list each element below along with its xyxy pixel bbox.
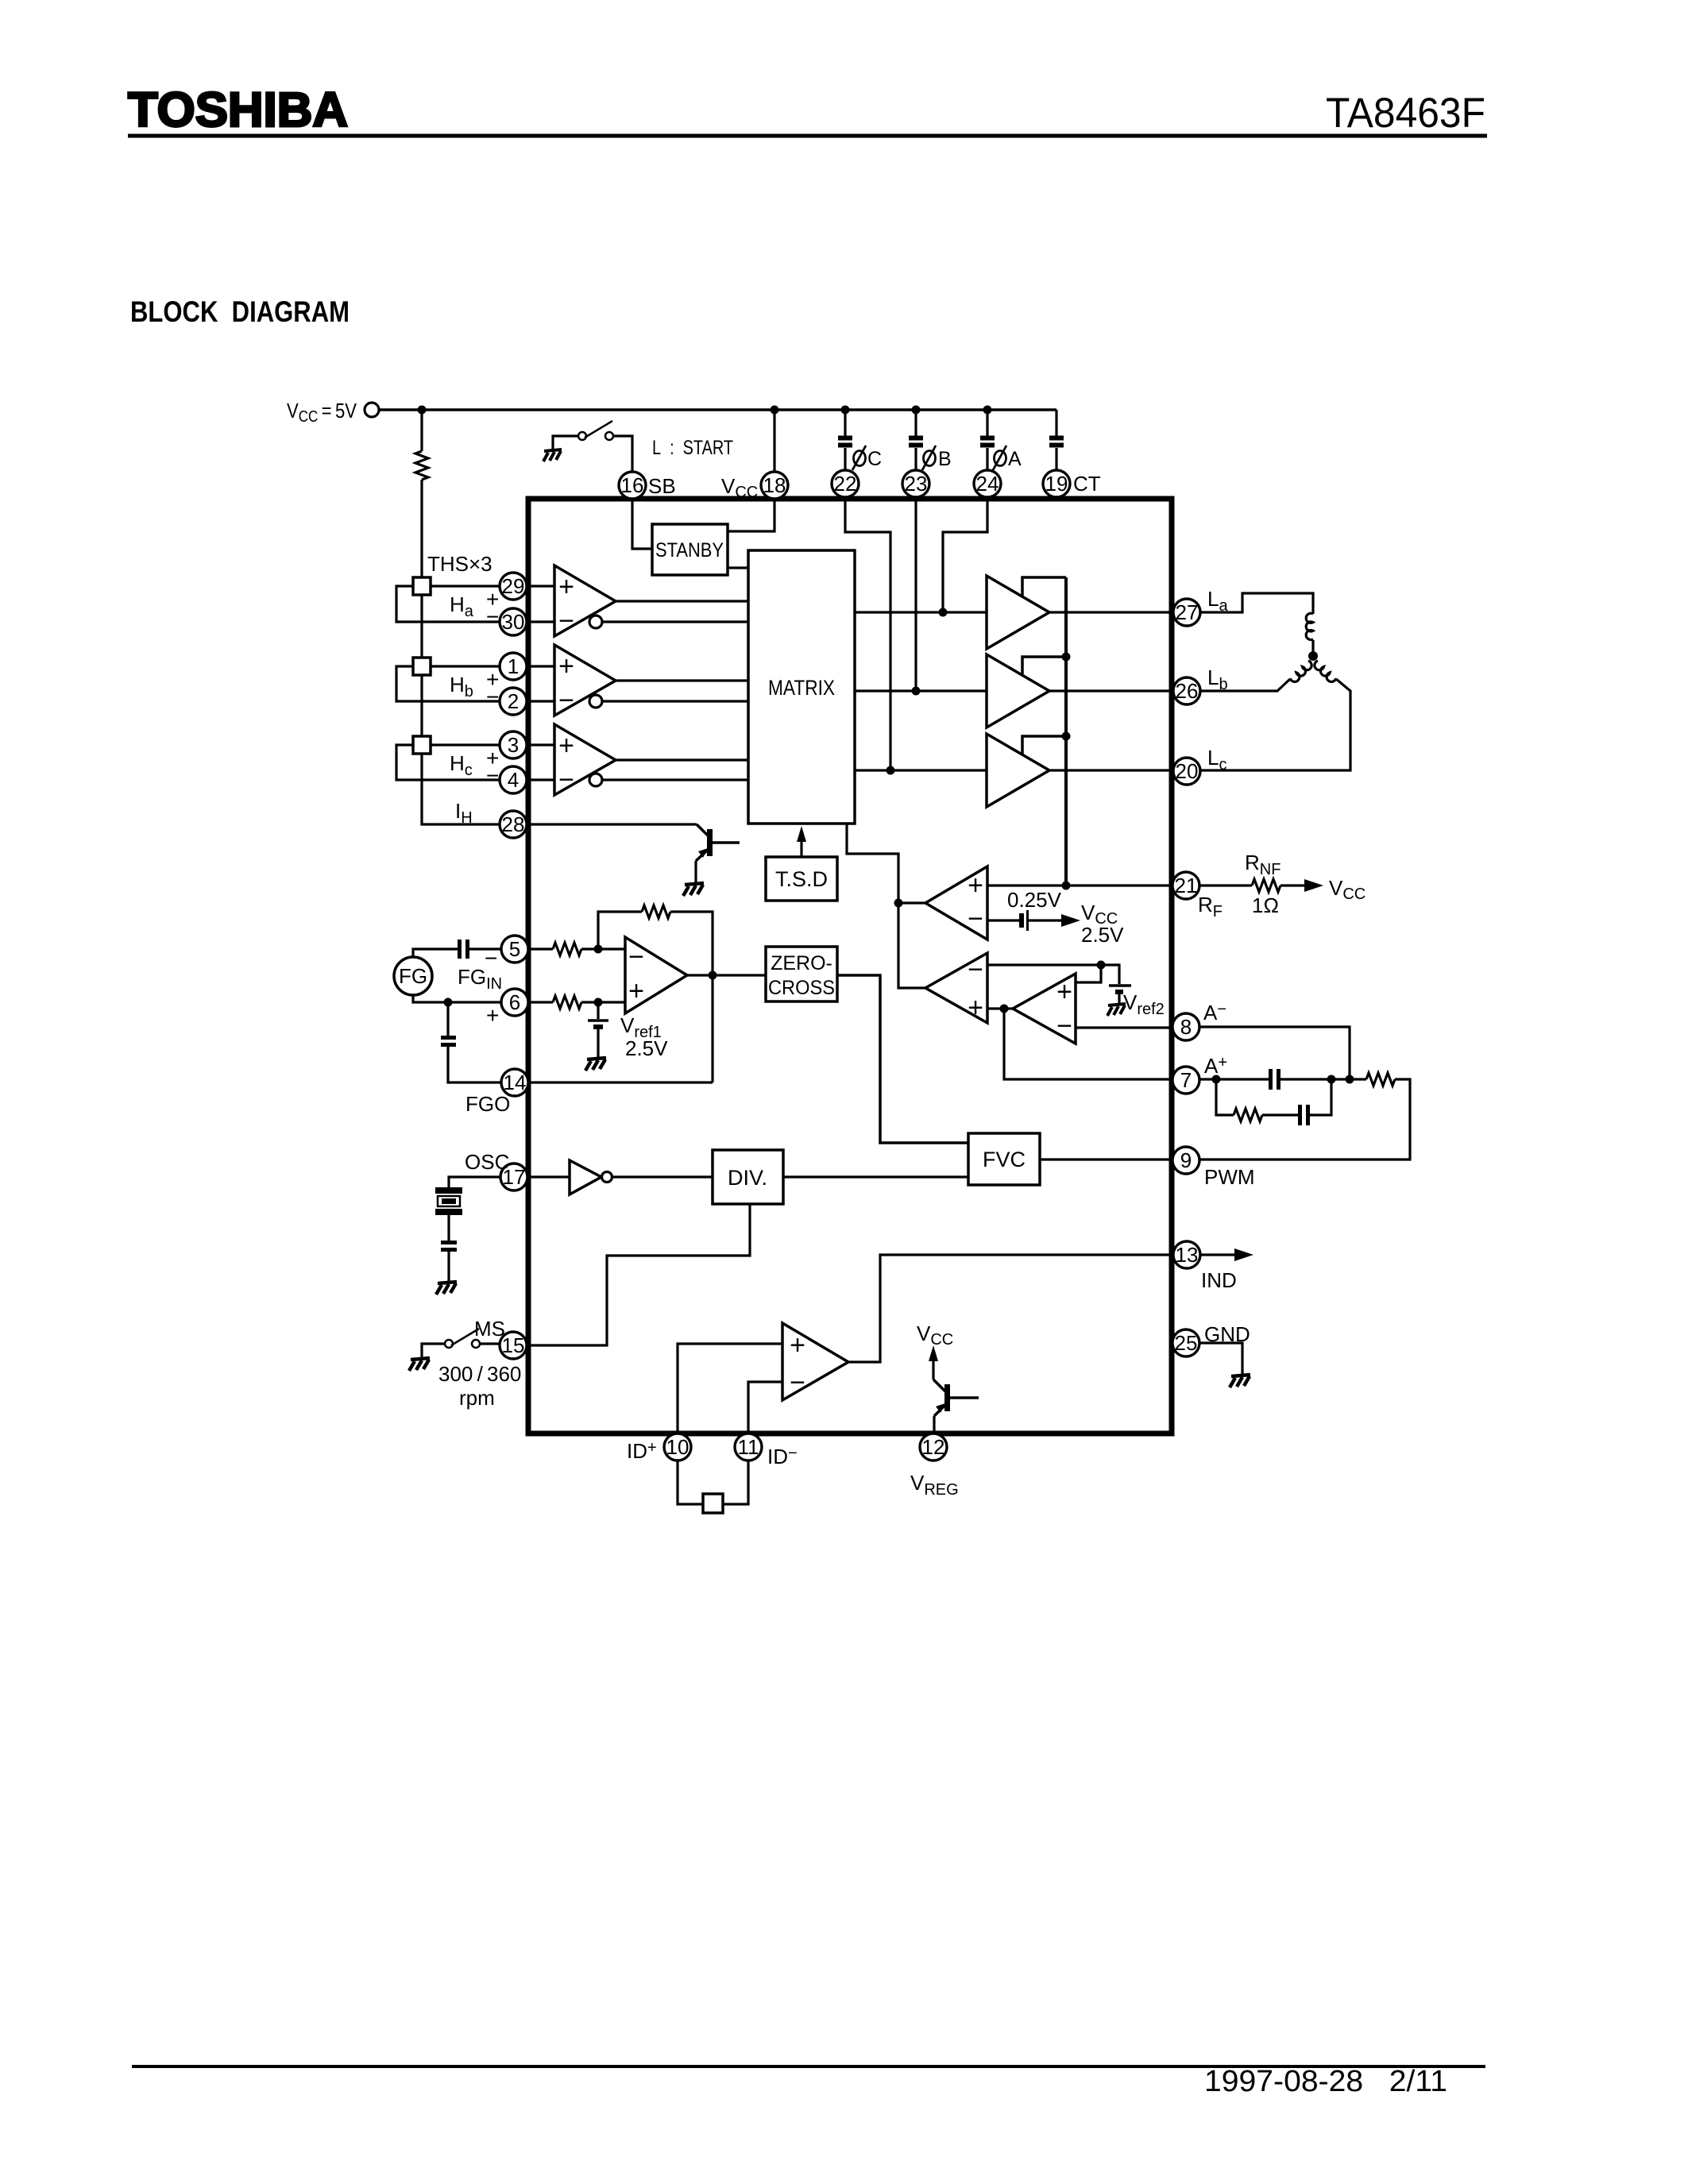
wire: B3 feedback notch [1022, 736, 1066, 754]
wire: B3 output to pin 20 [1049, 769, 1173, 771]
svg-text:20: 20 [1176, 759, 1199, 783]
svg-text:0.25V: 0.25V [1007, 888, 1062, 912]
wire: A1 inverted output to MATRIX [602, 620, 748, 623]
inductor Lc coil [1312, 661, 1336, 684]
footer rule [132, 2065, 1485, 2068]
pin 3 [500, 731, 527, 758]
svg-text:−: − [558, 765, 574, 795]
arrow VREG transistor to VCC [932, 1352, 934, 1379]
svg-text:SB: SB [648, 474, 676, 498]
wire: pin 7 external [1199, 1078, 1269, 1080]
wire: switch to pin 16 [613, 436, 632, 471]
pin 5 [501, 936, 528, 963]
wire: pin 8 external loop [1199, 1027, 1350, 1079]
ground: OSC [436, 1282, 457, 1295]
hall element THS b [413, 658, 431, 675]
wire: pin 23 phi-B down [914, 497, 917, 691]
op-amp RF current comparator [925, 866, 987, 940]
svg-text:FGO: FGO [465, 1092, 510, 1116]
op-amp A1 hall comparator Ha [554, 565, 616, 636]
node: pin7 branch [1212, 1075, 1221, 1084]
STANBY block [652, 524, 728, 575]
wire: hall c plus to pin 3 [431, 743, 500, 746]
hall element THS c [413, 736, 431, 754]
T.S.D block [766, 857, 837, 901]
wire: RC lower branch [1216, 1079, 1234, 1115]
svg-text:L : START: L : START [652, 437, 733, 459]
wire: cap to pin 14 [448, 1047, 501, 1082]
pin 20 Lc [1173, 758, 1200, 785]
svg-text:23: 23 [905, 472, 928, 496]
wire: pin 16 to STANBY [632, 499, 652, 549]
wire: rail to cap A [986, 410, 988, 436]
wire: amp3 output down to pin 7 line [1004, 1009, 1172, 1079]
svg-text:+: + [558, 731, 574, 761]
ground: vref1 [585, 1058, 606, 1071]
svg-text:6: 6 [509, 990, 520, 1014]
pin 18 VCC [761, 472, 788, 499]
pin 22 phiC [832, 470, 859, 497]
svg-text:CROSS: CROSS [768, 977, 835, 999]
capacitor lower branch [1300, 1105, 1308, 1125]
wire: B2 feedback notch [1022, 657, 1066, 675]
pin 9 PWM [1172, 1147, 1199, 1174]
wire: pin 17 to resonator [449, 1177, 500, 1187]
pin 28 IH [500, 811, 527, 838]
wire: RF comp plus input to pin 21 [987, 884, 1172, 886]
pin 11 ID- [735, 1433, 762, 1461]
capacitor phi-C [838, 438, 852, 446]
wire: resistor to pin 9 loop [1200, 1079, 1410, 1160]
wire: RNF to VCC arrow [1280, 884, 1309, 886]
svg-text:4: 4 [508, 768, 519, 792]
inverter bubble A2 [589, 695, 602, 708]
wire: Lb coil to pin 26 [1200, 679, 1290, 691]
svg-text:+: + [790, 1330, 805, 1360]
wire: pin 18 vcc down [771, 406, 779, 415]
ground: vref2 [1107, 1004, 1126, 1016]
svg-text:+: + [558, 651, 574, 681]
pin 17 OSC [500, 1163, 527, 1190]
svg-text:3: 3 [508, 733, 519, 757]
MATRIX block [748, 550, 855, 824]
node: B3 feedback on bus [1062, 732, 1071, 741]
wire: MS contact to pin 15 [480, 1342, 500, 1345]
svg-text:2.5V: 2.5V [625, 1036, 668, 1060]
wire: MATRIX to buffer B2 [855, 689, 987, 692]
resistor FG feedback [642, 905, 670, 918]
svg-text:13: 13 [1176, 1243, 1199, 1267]
svg-text:−: − [558, 606, 574, 636]
svg-text:IND: IND [1201, 1268, 1237, 1292]
wire: FVC to pin 9 [1040, 1158, 1172, 1160]
wire: A3 inverted output to MATRIX [602, 778, 748, 781]
wire: switch to ground [553, 436, 578, 450]
arrow RNF to VCC [1304, 879, 1323, 892]
capacitor OSC [441, 1243, 457, 1250]
resistor PWM feedback [1366, 1073, 1395, 1086]
svg-text:A: A [1008, 448, 1022, 470]
inverter bubble A3 [589, 774, 602, 786]
wire: pin 22 phi-C into matrix bus [845, 497, 890, 770]
wire: amp3 minus to pin 8 [1076, 1026, 1172, 1028]
node: rail cap C [841, 406, 850, 415]
node: FG op-amp output [709, 971, 717, 980]
pin 23 phiB [902, 470, 929, 497]
svg-text:26: 26 [1176, 679, 1199, 703]
inverter bubble A1 [589, 615, 602, 628]
pin 10 ID+ [664, 1433, 691, 1461]
wire: B1 output to pin 27 [1049, 611, 1173, 613]
pin 1 [500, 653, 527, 680]
node: rail cap B [912, 406, 921, 415]
wire: hall a plus to pin 29 [431, 585, 500, 587]
wire: rail to cap C [844, 410, 846, 436]
wire: feedback up [598, 912, 642, 949]
svg-text:TOSHIBA: TOSHIBA [128, 83, 348, 137]
wire: A1 output to MATRIX [616, 600, 748, 602]
pin 24 phiA [974, 470, 1001, 497]
battery 0.25V [1019, 913, 1024, 928]
svg-text:+: + [486, 1003, 499, 1028]
svg-text:27: 27 [1176, 600, 1199, 624]
capacitor pin7 series [1271, 1069, 1279, 1090]
node: vref1 tap [594, 998, 603, 1007]
svg-text:−: − [558, 685, 574, 716]
svg-text:300 / 360: 300 / 360 [438, 1362, 521, 1386]
amplifier B1 output buffer [987, 576, 1049, 649]
label phi C [852, 446, 866, 470]
op-amp speed comparator [925, 953, 987, 1023]
node: RF comparator output [894, 899, 903, 908]
pin 4 [500, 766, 527, 793]
ground: MS switch [409, 1358, 430, 1371]
pin 13 IND [1173, 1241, 1200, 1268]
op-amp A-phase amp [1013, 974, 1076, 1044]
wire: STANBY to MATRIX [728, 566, 748, 569]
svg-text:rpm: rpm [459, 1386, 495, 1410]
node: pin8 loop joins pin7 net [1346, 1075, 1354, 1084]
op-amp FG amplifier [625, 937, 687, 1013]
inductor Lb coil [1290, 661, 1314, 684]
resistor FG minus input [553, 943, 581, 955]
svg-text:16: 16 [621, 473, 644, 497]
wire: RF comparator output stub [898, 901, 925, 904]
svg-text:29: 29 [502, 574, 525, 598]
wire: hall b plus to pin 1 [431, 665, 500, 667]
wire: speed comp plus to amp3 output [987, 1007, 1013, 1009]
VCC=5V terminal [365, 403, 379, 417]
node: rail to bias resistor [418, 406, 427, 415]
wire: lower cap up to node [1310, 1079, 1331, 1115]
wire: cap B to pin 23 [914, 448, 917, 471]
wire: rail down to resistor [420, 410, 423, 451]
wire: resistor to op-amp plus [581, 1001, 625, 1003]
wire: vref2 to ground [1118, 994, 1120, 1004]
svg-text:MATRIX: MATRIX [768, 676, 835, 700]
inductor La coil [1306, 613, 1313, 639]
wire: speed comp minus node [987, 963, 1101, 966]
svg-text:−: − [968, 955, 983, 985]
node: phi-A on La line [939, 608, 948, 617]
pin 2 [500, 688, 527, 715]
svg-text:−: − [968, 904, 983, 934]
svg-text:STANBY: STANBY [655, 539, 724, 561]
pin 7 A+ [1172, 1067, 1199, 1094]
wire: B2 output to pin 26 [1049, 689, 1173, 692]
inverter OSC [570, 1160, 601, 1194]
wire: lower resistor to cap [1262, 1113, 1298, 1116]
wire: DIV to FVC [783, 1175, 968, 1178]
wire: FG to coupling cap [413, 949, 458, 957]
switch MS contact right [472, 1340, 480, 1348]
label phi B [922, 446, 936, 470]
svg-text:FG: FG [399, 964, 427, 988]
node: phi-B on Lb line [912, 687, 921, 696]
wire: cap to ground [447, 1252, 450, 1282]
resistor FG plus input [553, 996, 581, 1009]
wire: pin 30 to comparator A1 [527, 620, 554, 623]
wire: top VCC rail [379, 408, 1056, 411]
wire: sensor to pin 11 [723, 1461, 748, 1504]
svg-text:OSC: OSC [465, 1150, 509, 1174]
wire: B1 feedback notch [1022, 577, 1066, 596]
svg-text:18: 18 [763, 473, 786, 497]
svg-text:1997-08-28 2/11: 1997-08-28 2/11 [1204, 2065, 1447, 2098]
wire: pin 29 to comparator A1 [527, 585, 554, 587]
svg-text:12: 12 [922, 1435, 945, 1459]
wire: pin 18 to STANBY [728, 499, 774, 531]
svg-text:2.5V: 2.5V [1081, 923, 1124, 947]
wire: pin 25 to ground [1199, 1343, 1242, 1375]
svg-text:+: + [1056, 977, 1072, 1007]
wire: pin 4 to comparator A3 [527, 778, 554, 781]
node: phi-C on Lc line [886, 766, 895, 775]
pin 12 VREG [920, 1433, 947, 1461]
pin 25 GND [1172, 1329, 1199, 1356]
switch SB lever [585, 421, 612, 438]
IC package outline [528, 499, 1172, 1433]
wire: rail end to cap CT [1055, 410, 1057, 436]
capacitor FG lower [441, 1038, 456, 1045]
header rule [128, 134, 1487, 138]
ground: Q1 emitter [683, 883, 704, 896]
op-amp A2 hall comparator Hb [554, 645, 616, 716]
switch SB contact right [605, 432, 613, 440]
wire: ID output to pin 13 IND [848, 1255, 1173, 1362]
wire: Lc coil to pin 20 [1200, 679, 1350, 770]
wire: pin 6 to input resistor [528, 1001, 553, 1003]
ZERO-CROSS block [766, 947, 837, 1001]
wire: inverter to DIV [612, 1175, 713, 1178]
wire: pin 21 to RNF [1199, 884, 1252, 886]
svg-text:10: 10 [666, 1435, 689, 1459]
wire: cap to pin 5 [469, 947, 501, 950]
wire: rail to cap B [914, 410, 917, 436]
node: bus on RF line [1062, 882, 1071, 890]
wire: MATRIX to buffer B3 [855, 769, 987, 771]
wire: cap C to pin 22 [844, 448, 846, 471]
svg-text:24: 24 [976, 472, 999, 496]
svg-text:B: B [938, 448, 952, 470]
capacitor phi-B [909, 438, 923, 446]
wire: Q2 emitter to pin 12 [933, 1416, 935, 1433]
ground: start switch [543, 450, 562, 461]
op-amp A3 hall comparator Hc [554, 724, 616, 795]
capacitor phi-A [980, 438, 995, 446]
wire: A2 output to MATRIX [616, 679, 748, 681]
svg-text:−: − [486, 604, 499, 629]
svg-text:GND: GND [1204, 1322, 1250, 1346]
svg-text:11: 11 [738, 1435, 759, 1459]
wire: cap A to pin 24 [986, 448, 988, 471]
svg-text:2: 2 [508, 689, 519, 713]
wire: pin 3 to comparator A3 [527, 743, 554, 746]
node: vref2 node [1097, 961, 1106, 970]
wire: resonator to cap [447, 1215, 450, 1241]
DIV. block [713, 1150, 783, 1204]
svg-text:PWM: PWM [1204, 1165, 1255, 1189]
svg-text:+: + [628, 976, 644, 1006]
wire: MS ground to contact [422, 1344, 445, 1358]
transistor Q1 [697, 824, 708, 835]
wire: MATRIX bottom to comparators [847, 824, 925, 988]
wire: pin 13 IND arrow [1200, 1253, 1241, 1256]
node: B2 feedback on bus [1062, 653, 1071, 662]
wire: MATRIX to buffer B1 [855, 611, 987, 613]
svg-text:30: 30 [502, 610, 525, 634]
wire: hall b minus loop to pin 2 [396, 666, 500, 701]
svg-text:14: 14 [504, 1071, 527, 1094]
svg-text:−: − [486, 763, 499, 788]
svg-text:21: 21 [1175, 874, 1198, 897]
pin 15 MS [500, 1332, 527, 1359]
wire: hall a minus loop to pin 30 [396, 586, 500, 622]
wire: pin 15 to DIV bottom [527, 1204, 750, 1345]
wire: pin 14 inside to feedback [528, 1081, 713, 1083]
wire: pin 28 IH to transistor Q1 [527, 823, 697, 825]
svg-text:9: 9 [1180, 1148, 1192, 1172]
wire: cap CT to pin 19 [1055, 448, 1057, 471]
svg-text:−: − [1056, 1011, 1072, 1041]
amplifier B2 output buffer [987, 654, 1049, 727]
svg-text:−: − [485, 946, 497, 970]
inverter bubble [602, 1172, 612, 1183]
wire: tap down to vref1 [597, 1002, 599, 1019]
resonator OSC [435, 1187, 462, 1194]
switch MS lever [451, 1329, 479, 1345]
svg-text:−: − [628, 942, 644, 972]
svg-text:25: 25 [1175, 1331, 1198, 1355]
wire: A3 output to MATRIX [616, 758, 748, 761]
wire: feedback to output [670, 912, 713, 1082]
wire: pin 2 to comparator A2 [527, 700, 554, 702]
hall element THS a [413, 577, 431, 595]
wire: FG op-amp output to ZERO-CROSS [687, 974, 766, 976]
wire: pin 1 to comparator A2 [527, 665, 554, 667]
svg-text:8: 8 [1180, 1015, 1192, 1039]
wire: 0.25V to VCC arrow [1029, 919, 1066, 921]
ground: pin 25 GND [1230, 1375, 1250, 1387]
node: RC branch rejoin [1327, 1075, 1336, 1084]
wire: Q1 emitter to ground [694, 861, 697, 883]
amplifier B3 output buffer [987, 734, 1049, 807]
svg-text:7: 7 [1180, 1068, 1192, 1092]
FG generator symbol [394, 957, 432, 995]
svg-text:5: 5 [509, 937, 520, 961]
wire: pin 24 phi-A jog down [943, 497, 987, 612]
hall sensor ID [703, 1494, 723, 1513]
wire: pin 27 to motor La [1200, 593, 1313, 614]
wire: FG to pin 6 [413, 995, 501, 1002]
resistor: hall bias (vertical) [415, 451, 428, 480]
svg-text:FVC: FVC [983, 1148, 1026, 1171]
svg-text:C: C [867, 448, 882, 470]
switch SB contact left [578, 432, 586, 440]
svg-text:1: 1 [508, 654, 519, 678]
node: feedback tap [594, 945, 603, 954]
wire: cap to resistor [1280, 1078, 1366, 1080]
wire: pin 10 to sensor [678, 1461, 703, 1504]
arrow to VCC 2.5V [1061, 914, 1080, 927]
wire: vref1 to ground [597, 1029, 599, 1058]
transistor Q2 VREG [933, 1379, 945, 1391]
wire: hall a to hall b [420, 595, 423, 658]
svg-text:+: + [558, 572, 574, 602]
svg-text:T.S.D: T.S.D [775, 867, 828, 891]
pin 21 RF [1172, 872, 1199, 899]
capacitor FG coupling [460, 940, 468, 959]
node: amp3 output [1000, 1005, 1009, 1013]
wire: pin 17 to inverter [527, 1175, 570, 1178]
pin 19 CT [1043, 470, 1070, 497]
FVC block [968, 1133, 1040, 1185]
wire: RF comp minus to 0.25V source [987, 919, 1022, 921]
capacitor CT [1049, 438, 1064, 446]
svg-text:+: + [968, 993, 983, 1023]
svg-text:ZERO-: ZERO- [771, 952, 832, 974]
node: rail cap A [983, 406, 992, 415]
svg-text:CT: CT [1073, 472, 1101, 496]
resistor lower branch [1234, 1109, 1262, 1121]
pin 8 A- [1172, 1013, 1199, 1040]
op-amp ID comparator [782, 1323, 848, 1400]
wire: hall c minus loop to pin 4 [396, 745, 500, 780]
wire: node to vref2 battery [1101, 965, 1119, 984]
resistor RNF 1ohm [1252, 879, 1280, 892]
wire: ID minus input to pin 11 [748, 1382, 782, 1433]
svg-text:1Ω: 1Ω [1252, 893, 1279, 917]
node: FG lower branch [444, 998, 453, 1007]
arrow T.S.D to MATRIX [800, 832, 802, 857]
svg-text:22: 22 [834, 472, 857, 496]
label phi A [993, 446, 1006, 470]
wire: La coil to star point [1311, 640, 1314, 656]
wire: ZERO-CROSS to FVC [837, 975, 968, 1143]
svg-text:THS×3: THS×3 [427, 552, 492, 576]
svg-text:BLOCK DIAGRAM: BLOCK DIAGRAM [130, 295, 350, 328]
svg-text:19: 19 [1045, 472, 1068, 496]
pin 14 FGO [501, 1069, 528, 1096]
svg-text:28: 28 [502, 812, 525, 836]
wire: resistor to hall chain [420, 480, 423, 577]
pin 29 [500, 573, 527, 600]
pin 6 [501, 989, 528, 1016]
pin 16 SB [619, 472, 646, 499]
svg-text:+: + [968, 870, 983, 901]
wire: node down to amp3 plus input [1076, 965, 1101, 982]
svg-text:−: − [790, 1368, 805, 1398]
